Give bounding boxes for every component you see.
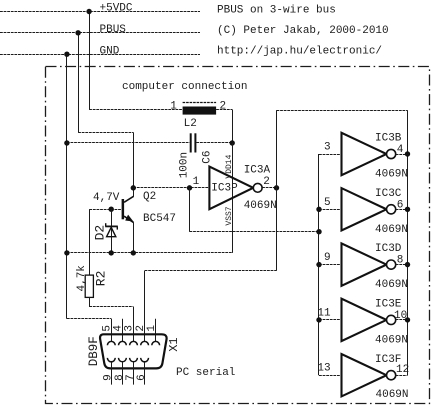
- transistor Q2: [122, 196, 134, 222]
- IC3A output bubble: [253, 183, 262, 192]
- svg-text:D2: D2: [93, 225, 108, 241]
- wire X1 pin 8 stub: [122, 362, 124, 385]
- svg-text:C6: C6: [201, 150, 213, 163]
- svg-text:4069N: 4069N: [376, 389, 409, 401]
- connector X1 DB9F outline: [100, 334, 167, 368]
- svg-text:3: 3: [324, 142, 331, 154]
- net GND bus line: [0, 54, 200, 56]
- svg-text:+5VDC: +5VDC: [100, 3, 133, 15]
- svg-text:R2: R2: [93, 271, 108, 287]
- junction Q2 emitter / ground row: [131, 250, 136, 255]
- zener diode D2: [105, 209, 118, 253]
- svg-text:PC serial: PC serial: [176, 367, 235, 379]
- svg-text:BC547: BC547: [143, 213, 176, 225]
- inverter IC3C: [319, 188, 408, 230]
- junction output node: [274, 185, 279, 190]
- wire local ground row: [67, 252, 232, 254]
- wire inverter input chain vertical: [318, 154, 320, 375]
- wire R2 to DB9 pin 3: [89, 306, 133, 308]
- svg-text:IC3E: IC3E: [375, 299, 402, 311]
- junction IC3E output: [405, 317, 410, 322]
- wire IC3A power VDD/VSS vertical: [232, 143, 234, 253]
- junction IC3B output: [405, 151, 410, 156]
- junction input branch node: [187, 185, 192, 190]
- svg-text:IC3A: IC3A: [244, 165, 271, 177]
- X1 pin 2 contact: [141, 341, 149, 345]
- title text block: [217, 5, 389, 58]
- X1 pin 1 contact: [152, 341, 160, 345]
- svg-text:4069N: 4069N: [375, 334, 408, 346]
- junction IC3C output: [405, 207, 410, 212]
- svg-text:VSS7: VSS7: [225, 206, 234, 225]
- svg-text:GND: GND: [100, 45, 120, 57]
- svg-text:1: 1: [193, 176, 200, 188]
- wire IC3A output: [262, 187, 276, 189]
- svg-text:IC3B: IC3B: [375, 133, 402, 145]
- X1 pin 8 contact: [119, 358, 127, 362]
- X1 pin 3 contact: [130, 341, 138, 345]
- svg-text:2: 2: [220, 100, 227, 112]
- junction GND rail / ground row: [64, 250, 69, 255]
- svg-text:4069N: 4069N: [375, 169, 408, 181]
- svg-text:6: 6: [136, 374, 148, 381]
- wire PBUS rail vertical: [78, 33, 80, 133]
- svg-text:PBUS on 3-wire bus: PBUS on 3-wire bus: [217, 5, 336, 17]
- wire DB9 pin 1 stub: [155, 319, 157, 342]
- net PBUS bus line: [0, 32, 200, 34]
- svg-text:1: 1: [170, 100, 177, 112]
- junction collector node: [131, 185, 136, 190]
- svg-text:IC3D: IC3D: [375, 243, 402, 255]
- inductor L2: [183, 103, 217, 115]
- wire DB9 pin 4 stub: [122, 319, 124, 342]
- X1 pin 9 contact: [107, 358, 115, 362]
- svg-text:DB9F: DB9F: [87, 336, 101, 366]
- wire GND rail vertical: [66, 54, 68, 319]
- capacitor C6: [190, 133, 197, 152]
- inverter IC3B: [319, 133, 408, 175]
- junction IC3C input: [316, 207, 321, 212]
- svg-text:4069N: 4069N: [375, 224, 408, 236]
- svg-text:1: 1: [146, 325, 158, 332]
- junction GND rail / C6 wire: [64, 140, 69, 145]
- inverter IC3E: [319, 299, 408, 341]
- wire IC3A input (pin 1): [133, 187, 209, 189]
- svg-text:8: 8: [397, 255, 404, 267]
- svg-text:IC3P: IC3P: [211, 182, 238, 194]
- X1 pin 6 contact: [141, 358, 149, 362]
- svg-text:4: 4: [397, 144, 404, 156]
- wire output top to inverter output chain: [277, 110, 408, 112]
- inverter IC3F: [319, 354, 408, 396]
- wire input node to inverter input chain: [189, 188, 191, 232]
- svg-text:4,7V: 4,7V: [93, 192, 120, 204]
- junction base / D2 node: [109, 207, 114, 212]
- svg-text:4069N: 4069N: [244, 200, 277, 212]
- wire Q2 emitter to ground row: [133, 222, 135, 253]
- wire L2 pin 2 to VDD node: [216, 109, 232, 111]
- junction on GND bus: [64, 52, 69, 57]
- wire GND to DB9 pin 5: [67, 318, 111, 320]
- X1 pin 5 contact: [107, 341, 115, 345]
- net +5VDC bus line: [0, 11, 200, 13]
- svg-text:computer connection: computer connection: [122, 81, 247, 93]
- svg-text:5: 5: [324, 197, 331, 209]
- junction on +5VDC bus: [86, 9, 91, 14]
- svg-text:IC3C: IC3C: [375, 188, 402, 200]
- svg-text:13: 13: [317, 363, 330, 375]
- svg-text:9: 9: [324, 252, 331, 264]
- wire GND to C6 left plate: [67, 142, 190, 144]
- junction D2 anode / ground row: [109, 250, 114, 255]
- wire output node to DB9 pin 2: [145, 270, 277, 272]
- junction input chain feed: [316, 229, 321, 234]
- resistor R2: [85, 209, 93, 307]
- wire Q2 base: [89, 209, 121, 211]
- svg-text:4069N: 4069N: [375, 279, 408, 291]
- wire input feed horizontal: [190, 231, 320, 233]
- junction IC3E input: [316, 317, 321, 322]
- svg-text:4,7k: 4,7k: [76, 265, 88, 292]
- svg-text:6: 6: [397, 199, 404, 211]
- svg-text:http://jap.hu/electronic/: http://jap.hu/electronic/: [217, 45, 382, 57]
- svg-text:2: 2: [263, 176, 270, 188]
- X1 pin 7 contact: [130, 358, 138, 362]
- dashed enclosure border (computer connection module): [46, 67, 430, 404]
- op-amp IC3A inverter triangle: [209, 167, 253, 210]
- wire inverter output chain vertical: [407, 110, 409, 375]
- wire C6 right plate to VDD node: [196, 142, 232, 144]
- junction on PBUS bus: [75, 30, 80, 35]
- wire +5VDC rail vertical: [89, 12, 91, 110]
- junction IC3D input: [316, 262, 321, 267]
- svg-text:100n: 100n: [179, 152, 191, 178]
- svg-text:X1: X1: [167, 337, 181, 351]
- X1 pin 4 contact: [119, 341, 127, 345]
- svg-text:L2: L2: [184, 118, 197, 130]
- inverter IC3D: [319, 243, 408, 285]
- wire X1 pin 7 stub: [133, 362, 135, 385]
- svg-text:PBUS: PBUS: [100, 24, 127, 36]
- junction IC3D output: [405, 262, 410, 267]
- wire X1 pin 9 stub: [111, 362, 113, 385]
- svg-text:Q2: Q2: [143, 191, 156, 203]
- wire PBUS to Q2 collector: [78, 132, 133, 134]
- wire +5VDC to L2 pin 1: [89, 109, 183, 111]
- wire output node vertical: [276, 110, 278, 270]
- junction VDD node: [230, 140, 235, 145]
- svg-text:(C) Peter Jakab, 2000-2010: (C) Peter Jakab, 2000-2010: [217, 25, 389, 37]
- wire X1 pin 6 stub: [144, 362, 146, 385]
- svg-text:12: 12: [396, 364, 409, 376]
